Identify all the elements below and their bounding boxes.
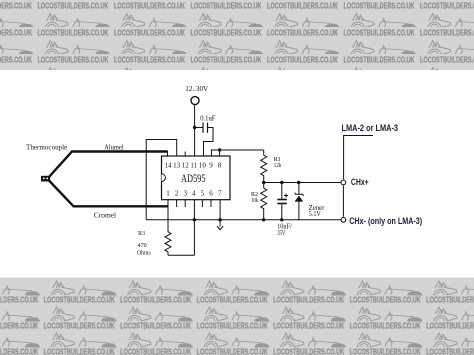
- junction pin 7 / common rail: [218, 218, 221, 221]
- power terminal circle: [191, 97, 199, 105]
- pin 8 stub: [219, 150, 221, 156]
- wire pin 4 down: [193, 200, 195, 256]
- svg-text:14: 14: [165, 161, 173, 169]
- svg-text:8: 8: [218, 161, 222, 169]
- pin 2 stub: [176, 200, 178, 207]
- wire pin 1 to Cromel and R3: [167, 200, 169, 232]
- wire output to CHx+: [264, 182, 341, 184]
- svg-text:12k: 12k: [274, 162, 282, 169]
- svg-text:5: 5: [201, 190, 205, 198]
- svg-text:9: 9: [209, 161, 213, 169]
- svg-text:AD595: AD595: [181, 173, 206, 185]
- capacitor C2 10uF leads and plates: [277, 183, 287, 220]
- svg-text:1: 1: [166, 190, 170, 198]
- svg-text:Ohms: Ohms: [137, 249, 151, 256]
- top watermark band: [0, 0, 474, 70]
- wire pin 13 to common box: [146, 140, 177, 220]
- svg-text:2: 2: [175, 190, 179, 198]
- wire pin 7 to rail: [219, 200, 221, 220]
- resistor R3: [165, 232, 171, 256]
- terminal CHx-: [341, 217, 346, 222]
- wire pin 9 to output net: [211, 150, 263, 156]
- U1 pin numbers bottom row: [166, 190, 222, 198]
- svg-text:10: 10: [199, 161, 207, 169]
- C2 polarity plus: [284, 194, 288, 198]
- capacitor C1: [195, 123, 208, 133]
- svg-text:R3: R3: [138, 230, 145, 237]
- svg-text:35V: 35V: [277, 229, 285, 237]
- pin 5 stub: [201, 200, 203, 207]
- svg-text:CHx- (only on LMA-3): CHx- (only on LMA-3): [349, 216, 422, 226]
- terminal CHx+: [341, 180, 346, 185]
- svg-text:3: 3: [183, 190, 187, 198]
- wire Alumel (thick): [49, 152, 168, 178]
- svg-text:6: 6: [209, 190, 213, 198]
- svg-text:Cromel: Cromel: [94, 211, 116, 220]
- junction pin 8 / pin 9 net: [218, 148, 221, 151]
- pin 3 stub: [184, 200, 186, 207]
- svg-text:11: 11: [190, 161, 197, 169]
- svg-text:10k: 10k: [251, 197, 259, 204]
- wire V+ vertical to pin 11: [194, 105, 196, 156]
- junction D1 top: [297, 181, 300, 184]
- wire C1 to pin 10: [204, 128, 214, 157]
- svg-text:Thermocouple: Thermocouple: [26, 142, 68, 151]
- svg-text:LMA-2 or LMA-3: LMA-2 or LMA-3: [342, 123, 399, 133]
- common rail wire: [146, 219, 340, 221]
- svg-text:13: 13: [173, 161, 181, 169]
- svg-text:5.1V: 5.1V: [309, 210, 321, 218]
- svg-text:0.1uF: 0.1uF: [200, 113, 215, 122]
- resistor R1: [261, 150, 267, 182]
- junction V+ / C1: [193, 126, 196, 129]
- pin 6 stub: [210, 200, 212, 207]
- U1 notch: [162, 174, 166, 182]
- svg-text:12..30V: 12..30V: [185, 84, 209, 93]
- junction R1/R2/output: [262, 181, 265, 184]
- zener diode D1: [295, 183, 304, 220]
- U1 pin numbers top row: [165, 161, 222, 169]
- pin 12 stub: [184, 152, 186, 157]
- thermocouple junction: [41, 176, 50, 182]
- bottom watermark band: [0, 278, 474, 355]
- op-amp U1 AD595 body: [162, 156, 231, 200]
- svg-text:12: 12: [182, 161, 190, 169]
- svg-text:Alumel: Alumel: [104, 142, 123, 151]
- junction C2 top: [280, 181, 283, 184]
- wire Cromel (thick): [49, 180, 168, 206]
- junction pin 4 / common rail: [193, 218, 196, 221]
- wire R3 bottom to pin 4: [168, 254, 194, 256]
- junction C2 bottom: [280, 218, 283, 221]
- pin 14 stub: [167, 151, 169, 156]
- node LMA bracket: [344, 136, 373, 180]
- svg-text:4: 4: [192, 190, 196, 198]
- svg-text:CHx+: CHx+: [351, 177, 369, 187]
- wire CHx+ to CHx-: [342, 185, 344, 216]
- svg-text:7: 7: [218, 190, 222, 198]
- resistor R2: [261, 183, 267, 220]
- svg-text:470: 470: [138, 242, 147, 249]
- ground arrow: [217, 220, 223, 230]
- junction R2 / rail: [262, 218, 265, 221]
